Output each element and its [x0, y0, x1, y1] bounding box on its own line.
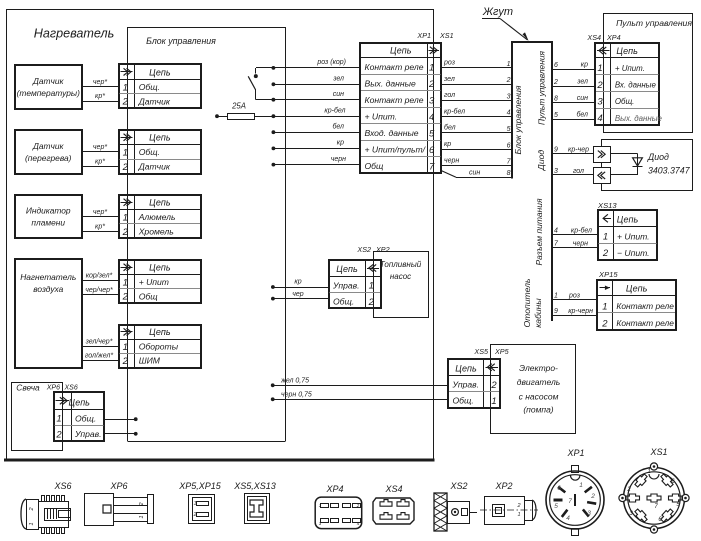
- svg-text:Управ.: Управ.: [332, 280, 360, 290]
- wire син harness pin 8 to XS4: [552, 95, 595, 103]
- svg-text:Хромель: Хромель: [138, 227, 175, 237]
- wire зел XS1 pin 2 to harness: [441, 76, 513, 85]
- svg-text:Электро-: Электро-: [519, 363, 558, 373]
- svg-text:Общ: Общ: [139, 291, 159, 301]
- wire жел 0,75 to motor: [271, 377, 449, 387]
- svg-text:(помпа): (помпа): [523, 405, 553, 415]
- svg-text:1: 1: [123, 82, 128, 93]
- blower control connector table: [119, 325, 201, 368]
- glow plug box Свеча: [12, 383, 63, 451]
- wire чер/чер* to blower: [82, 287, 120, 295]
- vertical edge through glow plug table: [62, 382, 64, 451]
- svg-text:1: 1: [29, 522, 35, 525]
- svg-text:2: 2: [490, 380, 497, 391]
- svg-text:черн 0,75: черн 0,75: [281, 391, 312, 398]
- wire кор/зел* to blower: [82, 273, 120, 281]
- svg-text:син: син: [333, 91, 344, 98]
- svg-text:Вход. данные: Вход. данные: [365, 128, 419, 138]
- svg-text:Цепь: Цепь: [455, 363, 477, 373]
- svg-text:2: 2: [122, 97, 129, 108]
- svg-text:XP5,XP15: XP5,XP15: [178, 481, 222, 491]
- connector drawing XS2: [434, 481, 477, 531]
- svg-text:Общ.: Общ.: [139, 147, 160, 157]
- svg-text:1: 1: [647, 469, 650, 475]
- svg-text:Управ.: Управ.: [452, 380, 480, 390]
- svg-text:черн: черн: [573, 241, 588, 248]
- svg-text:1: 1: [123, 148, 128, 159]
- svg-text:Диод: Диод: [647, 152, 669, 162]
- svg-text:Топливный: Топливный: [380, 260, 422, 269]
- svg-text:1: 1: [603, 232, 608, 243]
- connector labels XS2 XP2: [356, 245, 389, 254]
- svg-text:Контакт реле: Контакт реле: [365, 62, 424, 72]
- svg-text:кор/зел*: кор/зел*: [86, 273, 113, 280]
- svg-text:с насосом: с насосом: [519, 392, 559, 402]
- svg-text:син: син: [469, 170, 480, 177]
- wire черн XS1 pin 7 to harness: [441, 157, 513, 165]
- svg-text:насос: насос: [390, 272, 411, 281]
- wire бел row5: [272, 122, 361, 134]
- svg-text:кр*: кр*: [95, 93, 105, 100]
- svg-text:Блок управления: Блок управления: [513, 85, 523, 154]
- svg-text:жел 0,75: жел 0,75: [280, 377, 309, 384]
- svg-text:кабины: кабины: [533, 298, 543, 328]
- svg-text:Вых. данные: Вых. данные: [615, 114, 663, 123]
- diode box Диод 3403.3747: [602, 140, 693, 191]
- svg-text:6: 6: [557, 485, 561, 492]
- fuse 25А: [215, 102, 360, 120]
- svg-text:Общ.: Общ.: [333, 297, 354, 307]
- svg-text:2: 2: [122, 292, 129, 303]
- svg-text:двигатель: двигатель: [517, 377, 560, 387]
- svg-text:Управ.: Управ.: [74, 429, 102, 439]
- svg-text:Цепь: Цепь: [149, 133, 171, 143]
- svg-text:Индикатор: Индикатор: [26, 206, 71, 216]
- wire чер* to flame indicator: [82, 209, 120, 217]
- svg-text:кр: кр: [444, 141, 451, 148]
- svg-text:1: 1: [597, 63, 602, 74]
- svg-text:XP6: XP6: [109, 481, 127, 491]
- svg-text:роз (кор): роз (кор): [316, 59, 346, 66]
- svg-text:2: 2: [553, 79, 558, 86]
- svg-text:XP1: XP1: [566, 448, 584, 458]
- svg-text:кр-бел: кр-бел: [571, 226, 592, 234]
- svg-text:ХР6: ХР6: [46, 385, 60, 392]
- wire зел row2: [272, 76, 361, 87]
- svg-text:Общ.: Общ.: [453, 396, 474, 406]
- svg-text:2: 2: [29, 507, 35, 511]
- glow plug connector labels ХР6 XS6: [46, 385, 78, 392]
- connector table of flame indicator: [119, 195, 201, 238]
- wire кр XS1 pin 6 to harness: [441, 141, 513, 150]
- diode connector pin socket >>: [594, 147, 611, 163]
- svg-text:Датчик: Датчик: [138, 162, 171, 172]
- connector drawing XP1 round: [546, 448, 604, 536]
- heater enclosure box Нагреватель: [4, 10, 435, 461]
- svg-text:Вых. данные: Вых. данные: [365, 79, 416, 89]
- svg-text:4: 4: [566, 515, 570, 522]
- harness label Жгут with leader: [482, 6, 529, 41]
- svg-text:+ Uпит.: + Uпит.: [365, 112, 398, 122]
- diode connector pin socket <<: [594, 168, 611, 184]
- svg-text:роз: роз: [568, 293, 581, 300]
- svg-text:XS6: XS6: [64, 385, 78, 392]
- svg-text:1: 1: [123, 212, 128, 223]
- svg-text:XS1: XS1: [649, 447, 667, 457]
- wire черн harness pin 7 to XS13: [552, 241, 598, 248]
- connector drawing XP6: [85, 481, 154, 526]
- wire гол harness pin 3 to diode: [552, 168, 594, 175]
- svg-text:2: 2: [506, 77, 511, 84]
- svg-text:+ Uпит.: + Uпит.: [617, 231, 650, 241]
- svg-text:Цепь: Цепь: [149, 67, 171, 77]
- wire from plug Управ to control unit: [104, 432, 137, 436]
- svg-text:Цепь: Цепь: [336, 264, 358, 274]
- svg-text:5: 5: [554, 112, 558, 119]
- connector drawing XP4: [315, 484, 362, 529]
- svg-text:8: 8: [554, 95, 558, 102]
- wire гол XS1 pin 3 to harness: [441, 92, 513, 101]
- wire кр* to temp sensor: [82, 93, 120, 102]
- svg-text:Цепь: Цепь: [390, 46, 412, 56]
- svg-text:2: 2: [626, 487, 631, 493]
- svg-text:1: 1: [491, 396, 496, 407]
- svg-text:2: 2: [590, 493, 595, 500]
- svg-text:1: 1: [123, 342, 128, 353]
- wire кр row6: [272, 140, 361, 151]
- svg-text:Датчик: Датчик: [32, 141, 65, 151]
- svg-text:4: 4: [597, 113, 602, 124]
- wire зел harness pin 2 to XS4: [552, 79, 595, 87]
- wire кр* to overheat sensor: [82, 158, 120, 166]
- wire черн row7: [272, 156, 361, 167]
- svg-text:Отопитель: Отопитель: [522, 278, 532, 328]
- svg-text:XS2: XS2: [449, 481, 467, 491]
- svg-text:Алюмель: Алюмель: [138, 212, 176, 222]
- svg-text:Общ.: Общ.: [139, 82, 160, 92]
- svg-text:Цепь: Цепь: [149, 263, 171, 273]
- wire кр-черн harness pin 9 to XP15: [552, 308, 598, 315]
- svg-text:кр: кр: [294, 279, 301, 286]
- wire бел XS1 pin 5 to harness: [441, 124, 513, 133]
- svg-text:2: 2: [356, 503, 360, 508]
- svg-text:Нагнетатель: Нагнетатель: [20, 272, 76, 282]
- svg-text:гол/жел*: гол/жел*: [85, 353, 113, 360]
- connector drawing XS6: [21, 481, 72, 534]
- wire роз XS1 pin 1 to harness: [441, 60, 513, 68]
- svg-text:XP2: XP2: [494, 481, 512, 491]
- svg-text:кр-бел: кр-бел: [444, 107, 465, 115]
- svg-text:Контакт реле: Контакт реле: [365, 95, 424, 105]
- svg-text:кр-чер: кр-чер: [568, 147, 589, 154]
- svg-text:25А: 25А: [231, 102, 246, 111]
- svg-text:9: 9: [554, 147, 558, 154]
- svg-text:кр-черн: кр-черн: [568, 308, 593, 315]
- svg-text:Блок управления: Блок управления: [146, 36, 216, 46]
- connector labels XS5 XP5: [473, 347, 509, 356]
- svg-text:XS5,XS13: XS5,XS13: [233, 481, 276, 491]
- svg-text:Цепь: Цепь: [616, 46, 638, 56]
- connector drawing XS4: [373, 484, 414, 524]
- svg-text:XS13: XS13: [597, 201, 617, 210]
- svg-text:Нагреватель: Нагреватель: [34, 27, 114, 41]
- svg-text:(температуры): (температуры): [17, 88, 80, 98]
- connector drawing XP5,XP15: [178, 481, 222, 524]
- svg-text:Контакт реле: Контакт реле: [616, 318, 674, 328]
- svg-text:1: 1: [139, 515, 145, 518]
- svg-text:Диод: Диод: [536, 150, 546, 172]
- svg-text:2: 2: [602, 248, 609, 259]
- svg-text:Пульт управления: Пульт управления: [616, 18, 692, 28]
- wire син row3: [255, 91, 360, 102]
- harness bar Блок управления: [511, 42, 553, 328]
- svg-text:син: син: [577, 95, 588, 102]
- svg-text:зел: зел: [443, 76, 455, 83]
- svg-text:5: 5: [507, 126, 511, 133]
- svg-text:2: 2: [596, 80, 603, 91]
- svg-text:1: 1: [56, 414, 61, 425]
- svg-text:2: 2: [122, 227, 129, 238]
- svg-text:3: 3: [507, 93, 511, 100]
- svg-text:чер*: чер*: [93, 209, 107, 216]
- main connector table XP1/XS1: [360, 43, 441, 173]
- svg-text:1: 1: [517, 512, 520, 518]
- electric motor box Электродвигатель с насосом: [491, 345, 576, 434]
- svg-text:XP1: XP1: [416, 31, 431, 40]
- wire бел harness pin 5 to XS4: [552, 111, 595, 120]
- svg-text:бел: бел: [444, 124, 456, 132]
- connector table XS of temperature sensor: [119, 64, 201, 108]
- svg-text:Цепь: Цепь: [617, 215, 639, 225]
- svg-text:чер*: чер*: [93, 79, 107, 86]
- svg-text:Вх. данные: Вх. данные: [615, 81, 657, 90]
- svg-text:Общ.: Общ.: [75, 413, 96, 423]
- svg-text:3: 3: [597, 97, 603, 108]
- svg-text:XP5: XP5: [494, 347, 510, 356]
- svg-text:XS4: XS4: [384, 484, 402, 494]
- wire чер* to overheat sensor: [82, 144, 120, 152]
- connector drawing XS1 round: [619, 447, 689, 533]
- svg-text:3: 3: [429, 96, 435, 107]
- svg-text:+ Uпит.: + Uпит.: [615, 64, 645, 73]
- sensor box Датчик (перегрева): [15, 130, 82, 174]
- flame indicator box Индикатор пламени: [15, 195, 82, 238]
- connector drawing XS5,XS13: [233, 481, 276, 524]
- svg-text:Датчик: Датчик: [138, 96, 171, 106]
- wire кр-бел harness pin 4 to XS13: [552, 226, 598, 234]
- wire чер* to temp sensor: [82, 79, 120, 87]
- wire кр-чер harness pin 9 to diode: [552, 147, 594, 154]
- wire син XS1 pin 8 to harness: [441, 170, 513, 178]
- svg-text:Цепь: Цепь: [626, 284, 648, 294]
- cab heater connector table XP15: [597, 280, 676, 330]
- wire кр* to flame indicator: [82, 223, 120, 231]
- diode symbol: [610, 154, 642, 175]
- svg-text:XP4: XP4: [325, 484, 343, 494]
- svg-text:5: 5: [554, 503, 558, 510]
- wire гол/жел* to blower PWM: [82, 353, 120, 361]
- svg-text:XP15: XP15: [598, 270, 618, 279]
- svg-text:роз: роз: [443, 60, 456, 67]
- svg-text:+ Uпит: + Uпит: [139, 277, 169, 287]
- svg-text:Общ: Общ: [365, 161, 385, 171]
- svg-text:3: 3: [587, 510, 591, 517]
- svg-text:2: 2: [368, 297, 375, 308]
- svg-text:Цепь: Цепь: [149, 198, 171, 208]
- svg-text:пламени: пламени: [31, 218, 65, 228]
- svg-text:1: 1: [429, 63, 434, 74]
- svg-text:4: 4: [554, 227, 558, 234]
- svg-text:кр-бел: кр-бел: [324, 106, 345, 114]
- fuel pump connector table XS2/XP2: [329, 260, 381, 308]
- svg-text:Общ.: Общ.: [615, 97, 634, 106]
- svg-text:+ Uпит/пульт/: + Uпит/пульт/: [365, 145, 427, 155]
- svg-text:1: 1: [123, 277, 128, 288]
- wire чер to fuel pump: [271, 291, 329, 301]
- wire from plug Общ to control unit: [104, 417, 137, 421]
- svg-text:2: 2: [122, 162, 129, 173]
- svg-text:2: 2: [601, 319, 608, 330]
- svg-text:кр*: кр*: [95, 223, 105, 230]
- svg-text:2: 2: [193, 512, 197, 518]
- svg-text:черн: черн: [444, 157, 459, 164]
- svg-text:6: 6: [429, 145, 435, 156]
- svg-text:1: 1: [194, 501, 197, 507]
- svg-text:Свеча: Свеча: [16, 383, 40, 393]
- control panel box Пульт управления: [604, 14, 693, 133]
- svg-text:1: 1: [579, 482, 583, 489]
- svg-text:XS6: XS6: [53, 481, 71, 491]
- svg-text:2: 2: [428, 79, 435, 90]
- switch contact: [248, 68, 258, 100]
- motor connector table XS5/XP5: [448, 359, 500, 408]
- connector table XS of overheat sensor: [119, 130, 201, 174]
- glow plug connector table: [54, 392, 104, 441]
- svg-text:Цепь: Цепь: [68, 398, 90, 408]
- svg-text:гол: гол: [444, 92, 455, 99]
- connector labels XS4 XP4: [586, 33, 620, 42]
- svg-text:1: 1: [507, 61, 511, 68]
- svg-text:2: 2: [139, 502, 145, 506]
- svg-text:1: 1: [602, 301, 607, 312]
- svg-text:зел: зел: [332, 76, 344, 83]
- svg-text:2: 2: [516, 503, 520, 509]
- panel connector table XS4/XP4: [595, 43, 663, 125]
- svg-text:7: 7: [568, 498, 572, 505]
- svg-text:9: 9: [554, 308, 558, 315]
- fuel pump box Топливный насос: [374, 252, 429, 318]
- svg-text:6: 6: [507, 142, 511, 149]
- svg-text:8: 8: [507, 170, 511, 177]
- svg-text:4: 4: [507, 110, 511, 117]
- wire кр to fuel pump: [271, 279, 329, 289]
- wire кр-бел XS1 pin 4 to harness: [441, 107, 513, 116]
- svg-text:гол: гол: [573, 168, 584, 175]
- connector labels XP1 XS1: [416, 31, 453, 40]
- svg-text:1: 1: [369, 281, 374, 292]
- svg-text:черн: черн: [331, 156, 346, 163]
- svg-text:XP2: XP2: [375, 245, 390, 254]
- svg-text:кр: кр: [581, 62, 588, 69]
- svg-text:чер/чер*: чер/чер*: [85, 287, 113, 294]
- svg-text:5: 5: [429, 129, 435, 140]
- svg-text:кр*: кр*: [95, 158, 105, 165]
- svg-text:XP4: XP4: [606, 33, 621, 42]
- svg-text:Обороты: Обороты: [139, 342, 179, 352]
- svg-text:зел/чер*: зел/чер*: [85, 338, 113, 345]
- svg-text:XS5: XS5: [473, 347, 489, 356]
- svg-text:Датчик: Датчик: [32, 76, 65, 86]
- wire черн 0,75 to motor: [271, 391, 449, 401]
- svg-text:1: 1: [554, 293, 558, 300]
- svg-text:2: 2: [122, 356, 129, 367]
- svg-text:бел: бел: [332, 122, 344, 130]
- svg-text:кр: кр: [337, 140, 344, 147]
- wire зел/чер* to blower tacho: [82, 338, 120, 346]
- svg-text:чер*: чер*: [93, 144, 107, 151]
- sensor box Датчик (температуры): [15, 65, 82, 109]
- svg-text:XS2: XS2: [356, 245, 371, 254]
- svg-text:воздуха: воздуха: [33, 284, 63, 294]
- svg-text:2: 2: [55, 429, 62, 440]
- svg-text:− Uпит.: − Uпит.: [617, 248, 650, 258]
- svg-text:(перегрева): (перегрева): [25, 153, 72, 163]
- svg-text:ШИМ: ШИМ: [139, 356, 161, 366]
- air blower box Нагнетатель воздуха: [15, 259, 82, 368]
- svg-text:3403.3747: 3403.3747: [648, 166, 691, 176]
- svg-text:6: 6: [554, 62, 558, 69]
- svg-text:XS4: XS4: [586, 33, 601, 42]
- power connector table XS13: [598, 210, 657, 260]
- svg-text:7: 7: [429, 162, 435, 173]
- blower power connector table: [119, 260, 201, 303]
- svg-text:Жгут: Жгут: [482, 6, 513, 18]
- wire роз (кор) row1: [256, 59, 361, 70]
- control unit box Блок управления: [127, 27, 285, 442]
- svg-text:Разъем питания: Разъем питания: [534, 198, 544, 266]
- svg-text:Цепь: Цепь: [149, 327, 171, 337]
- svg-text:бел: бел: [576, 111, 588, 119]
- svg-text:XS1: XS1: [439, 31, 454, 40]
- svg-text:чер: чер: [292, 291, 304, 298]
- svg-text:Контакт реле: Контакт реле: [616, 301, 674, 311]
- wire роз harness pin 1 to XP15: [552, 293, 598, 300]
- svg-text:3: 3: [554, 168, 558, 175]
- wire кр harness pin 6 to XS4: [552, 62, 595, 70]
- connector drawing XP2: [480, 481, 538, 525]
- svg-text:зел: зел: [576, 79, 588, 86]
- svg-text:4: 4: [429, 112, 434, 123]
- svg-text:Пульт управления: Пульт управления: [537, 51, 547, 125]
